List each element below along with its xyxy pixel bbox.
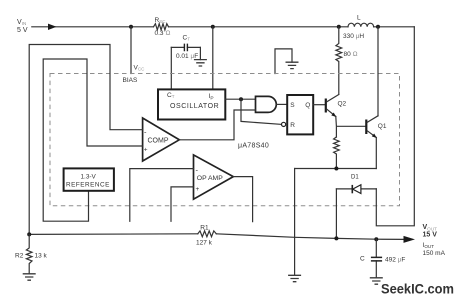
R input bubble: [282, 122, 286, 126]
svg-text:R2: R2: [15, 253, 24, 260]
wire feedback outer loop to comp minus: [29, 45, 142, 235]
node junction dot oscillator output: [239, 97, 243, 101]
wire D1 cathode to output: [335, 189, 337, 239]
flip-flop box: [287, 95, 313, 134]
ground pin upper (phase pin): [275, 49, 292, 74]
wire op-amp minus input: [130, 169, 194, 222]
wire op-amp output stub: [233, 177, 252, 222]
svg-text:D1: D1: [351, 175, 359, 181]
svg-text:OSCILLATOR: OSCILLATOR: [170, 103, 219, 110]
node junction dot BIAS/top rail: [129, 25, 133, 29]
svg-text:15 V: 15 V: [423, 232, 438, 239]
svg-text:C: C: [360, 256, 365, 263]
diode D1: [336, 175, 376, 194]
svg-text:5 V: 5 V: [17, 27, 28, 34]
wire oscillator output: [225, 98, 255, 100]
wire IC ground pin: [294, 169, 296, 276]
svg-text:L: L: [357, 15, 361, 22]
svg-text:IOUT: IOUT: [423, 242, 435, 249]
resistor 80 ohm: [336, 27, 358, 94]
capacitor CT: [171, 35, 200, 60]
op-amp U1b: [194, 155, 234, 199]
node N1 emitter/ground junction: [295, 168, 377, 170]
wire top rail: [32, 26, 415, 28]
node VCC BIAS label: [123, 65, 146, 85]
svg-text:1.3-V: 1.3-V: [81, 173, 97, 180]
svg-text:150 mA: 150 mA: [423, 250, 446, 257]
ground R2: [23, 274, 36, 280]
svg-text:VCC: VCC: [134, 65, 146, 72]
and gate U1a: [256, 96, 277, 112]
capacitor C output: [360, 239, 405, 278]
wire D1 anode to switch node: [376, 27, 414, 226]
wire oscillator to R input: [241, 99, 282, 124]
svg-text:13 k: 13 k: [35, 253, 48, 260]
svg-text:SeekIC.com: SeekIC.com: [381, 281, 454, 297]
resistor R2: [15, 234, 48, 273]
resistor Q2 bleed: [334, 137, 340, 169]
wire and gate output to S: [277, 103, 288, 105]
wire reference to comp plus: [43, 59, 142, 221]
svg-text:Q: Q: [305, 102, 310, 109]
transistor Q1: [366, 116, 387, 138]
ground IC pin: [288, 275, 301, 281]
svg-text:RSC: RSC: [155, 17, 167, 24]
svg-text:VIN: VIN: [17, 19, 26, 26]
svg-text:BIAS: BIAS: [123, 77, 138, 84]
svg-text:Q2: Q2: [338, 101, 347, 108]
svg-text:127 k: 127 k: [196, 240, 213, 247]
svg-text:OP AMP: OP AMP: [197, 175, 223, 182]
svg-text:+: +: [196, 186, 200, 193]
wire IP pin: [212, 27, 214, 90]
wire output rail with R1: [29, 234, 404, 240]
wire CT cap to ground: [199, 47, 201, 59]
node junction dot D1/output: [334, 236, 338, 240]
oscillator box: [158, 89, 225, 119]
svg-text:REFERENCE: REFERENCE: [66, 182, 110, 189]
ground symbol upper: [286, 62, 299, 68]
node junction dot IP/top rail: [211, 25, 215, 29]
resistor R1: [196, 225, 216, 247]
svg-text:CT: CT: [183, 35, 191, 42]
ground CT: [194, 60, 207, 66]
svg-text:COMP: COMP: [148, 138, 169, 145]
svg-text:S: S: [290, 102, 295, 109]
svg-text:0.3 Ω: 0.3 Ω: [155, 30, 171, 37]
svg-text:330 μH: 330 μH: [343, 33, 364, 40]
wire CT pin: [170, 47, 172, 89]
node junction dot L right: [376, 25, 380, 29]
wire Q2 emitter node: [336, 117, 367, 138]
svg-text:μA78S40: μA78S40: [238, 142, 269, 149]
wire Q output to Q2 base: [313, 104, 326, 106]
transistor Q2: [326, 95, 347, 118]
IC boundary dashed box uA78S40: [50, 74, 400, 206]
reference box 1.3V: [64, 168, 114, 190]
svg-text:R: R: [290, 122, 295, 129]
wire comp output to gate: [179, 110, 255, 140]
arrow input current: [48, 24, 57, 30]
svg-text:Q1: Q1: [378, 123, 387, 130]
ground C: [370, 278, 383, 284]
node junction dot feedback/R2: [27, 232, 31, 236]
node VIN label: [17, 19, 28, 34]
resistor RSC: [154, 17, 171, 37]
node junction dot C/output: [374, 237, 378, 241]
wire Q1 collector: [377, 27, 379, 116]
arrow output: [404, 236, 416, 243]
node junction dot L left: [337, 25, 341, 29]
wire Q1 emitter: [375, 138, 377, 169]
wire op-amp plus input: [171, 187, 194, 221]
svg-text:+: +: [144, 147, 148, 154]
svg-text:80 Ω: 80 Ω: [344, 51, 358, 58]
svg-text:492 μF: 492 μF: [385, 257, 405, 264]
node VOUT labels: [423, 224, 446, 257]
svg-text:0.01 μF: 0.01 μF: [176, 53, 198, 60]
inductor L: [343, 15, 374, 40]
comparator COMP: [143, 118, 180, 161]
wire BIAS pin: [130, 27, 132, 74]
svg-text:VOUT: VOUT: [423, 224, 438, 231]
svg-text:R1: R1: [200, 225, 209, 232]
